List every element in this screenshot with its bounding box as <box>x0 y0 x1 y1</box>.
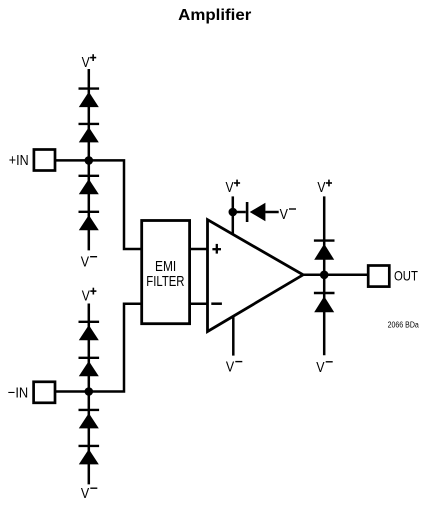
wire: output clamp stack vertical <box>323 196 326 355</box>
diode D7 (-IN stack third, from V-) <box>79 410 100 429</box>
svg-text:+IN: +IN <box>9 152 29 169</box>
svg-text:−IN: −IN <box>8 384 28 401</box>
power label V- (bottom of +IN clamp stack) <box>81 255 97 271</box>
wire: +IN box to junction to EMI filter upper input <box>55 160 142 249</box>
node: +IN junction <box>85 156 94 165</box>
wire: +IN clamp stack vertical <box>88 69 91 250</box>
label EMI FILTER <box>146 259 184 290</box>
op-amp - input marking <box>211 302 222 305</box>
svg-text:V: V <box>81 255 89 271</box>
wire: op-amp V- supply lead <box>232 316 235 356</box>
op-amp + input marking <box>212 244 221 254</box>
diode D3 (+IN stack third, from V-) <box>79 176 100 195</box>
diode D10 (output clamp to V+) <box>314 241 335 260</box>
svg-text:V: V <box>226 360 234 376</box>
wire: junction to clamp diode cathode <box>233 211 246 214</box>
power label V- (clamp diode) <box>280 207 296 223</box>
diode D2 (+IN stack second, to V+) <box>79 124 100 142</box>
svg-text:Amplifier: Amplifier <box>178 7 251 24</box>
power label V+ (top of +IN clamp stack) <box>82 54 97 71</box>
wire: -IN box to junction to EMI filter lower input <box>55 304 142 392</box>
wire: op-amp output to OUT box <box>301 274 368 277</box>
wire: V+ supply lead into op-amp <box>232 196 235 238</box>
power label V+ (op-amp supply) <box>226 180 241 196</box>
svg-text:V: V <box>316 360 324 376</box>
svg-text:V: V <box>280 207 288 223</box>
wire: EMI filter to op-amp noninverting input <box>190 248 209 251</box>
power label V+ (top of -IN clamp stack) <box>82 288 97 305</box>
diode D4 (+IN stack bottom, from V-) <box>79 212 100 231</box>
diode D11 (output clamp from V-) <box>314 293 335 312</box>
wire: EMI filter to op-amp inverting input <box>190 303 209 306</box>
svg-text:2066 BDa: 2066 BDa <box>388 320 420 329</box>
svg-text:V: V <box>226 180 234 196</box>
diode D1 (+IN stack top, to V+) <box>79 89 100 108</box>
svg-text:V: V <box>81 486 89 502</box>
power label V- (bottom of output clamp stack) <box>316 360 332 376</box>
power label V+ (top of output clamp stack) <box>317 180 332 196</box>
svg-text:V: V <box>82 288 90 304</box>
diode D6 (-IN stack second, to V+) <box>79 358 100 377</box>
op-amp U1 <box>208 220 304 332</box>
terminal box OUT <box>368 266 389 287</box>
EMI filter block <box>142 221 190 324</box>
node: op-amp V+ / clamp diode junction <box>229 208 238 217</box>
terminal box -IN <box>34 382 55 403</box>
node: output junction <box>320 271 329 280</box>
wire: -IN clamp stack vertical <box>88 304 91 485</box>
terminal box +IN <box>34 150 55 171</box>
svg-text:OUT: OUT <box>394 267 418 283</box>
svg-text:V: V <box>82 55 90 71</box>
svg-text:FILTER: FILTER <box>146 274 184 290</box>
node: -IN junction <box>85 387 94 396</box>
svg-text:V: V <box>317 180 325 196</box>
svg-text:EMI: EMI <box>155 259 176 275</box>
power label V- (bottom of -IN clamp stack) <box>81 486 97 502</box>
power label V- (op-amp supply) <box>226 360 242 376</box>
diode D5 (-IN stack top, to V+) <box>79 322 100 341</box>
diode D9 (supply clamp to V-, pointing left) <box>247 202 265 222</box>
diode D8 (-IN stack bottom, from V-) <box>79 446 100 465</box>
wire: clamp diode anode to V- label <box>265 211 279 214</box>
